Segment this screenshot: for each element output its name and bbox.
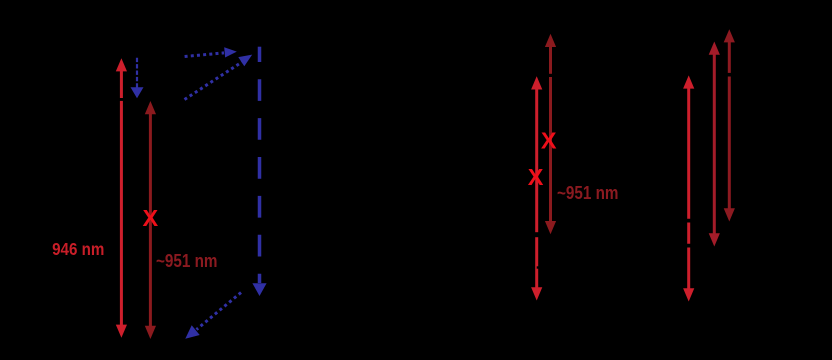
- svg-text:~951 nm: ~951 nm: [557, 183, 619, 203]
- svg-text:X: X: [541, 128, 557, 154]
- svg-text:~951 nm: ~951 nm: [156, 251, 218, 271]
- svg-text:X: X: [143, 205, 159, 231]
- svg-text:946 nm: 946 nm: [52, 239, 104, 259]
- svg-text:X: X: [528, 164, 544, 190]
